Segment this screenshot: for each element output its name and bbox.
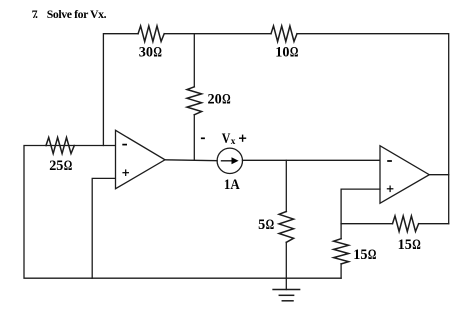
svg-text:Ω: Ω xyxy=(266,216,275,232)
svg-text:Ω: Ω xyxy=(64,158,73,174)
svg-text:5: 5 xyxy=(258,217,265,233)
svg-text:25: 25 xyxy=(49,158,63,174)
svg-text:15: 15 xyxy=(353,247,367,263)
svg-text:Ω: Ω xyxy=(290,44,299,60)
svg-text:Ω: Ω xyxy=(412,237,421,253)
svg-text:V: V xyxy=(222,131,231,147)
svg-text:Ω: Ω xyxy=(153,44,162,60)
svg-text:Ω: Ω xyxy=(368,247,377,263)
svg-text:7.: 7. xyxy=(32,7,38,21)
svg-text:30: 30 xyxy=(139,45,153,61)
svg-text:x: x xyxy=(231,136,236,146)
svg-text:10: 10 xyxy=(275,45,289,61)
svg-text:1A: 1A xyxy=(224,177,240,193)
svg-text:Ω: Ω xyxy=(222,91,231,107)
svg-text:15: 15 xyxy=(398,237,412,253)
svg-text:Solve for Vx.: Solve for Vx. xyxy=(47,7,107,21)
svg-text:20: 20 xyxy=(208,91,222,107)
